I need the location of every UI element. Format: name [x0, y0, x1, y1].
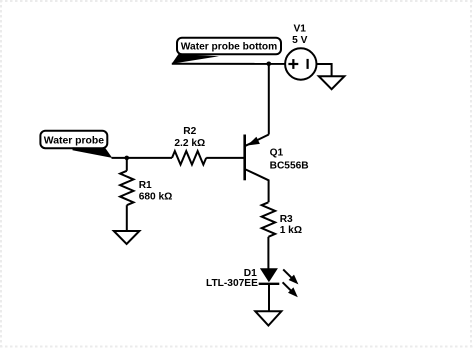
ground symbol (R1 return)	[114, 231, 140, 244]
svg-text:LTL-307EE: LTL-307EE	[206, 278, 258, 289]
wire: V1 negative terminal to ground	[317, 64, 332, 76]
voltage source V1	[285, 48, 316, 79]
svg-text:R2: R2	[183, 126, 196, 137]
transistor Q1 PNP BC556B	[245, 135, 269, 203]
svg-text:680 kΩ: 680 kΩ	[139, 192, 173, 203]
svg-text:Water probe: Water probe	[44, 136, 104, 147]
R3 value label "R3 / 1 kΩ"	[280, 214, 302, 236]
node "Water probe" (callout annotation)	[40, 131, 112, 158]
svg-text:R1: R1	[139, 180, 152, 191]
wire: R2 to Q1 base	[206, 157, 245, 159]
svg-text:V1: V1	[293, 24, 306, 35]
R1 value label "R1 / 680 kΩ"	[139, 180, 173, 203]
wire: R1 to ground	[126, 205, 128, 231]
R2 value label "R2 / 2.2 kΩ"	[174, 126, 205, 149]
wire: junction down to Q1 emitter	[268, 64, 270, 135]
resistor R1	[120, 171, 133, 205]
svg-text:Water probe bottom: Water probe bottom	[181, 42, 277, 53]
svg-text:R3: R3	[280, 214, 293, 225]
svg-text:BC556B: BC556B	[270, 160, 309, 171]
wire: probe node to R1/R2 junction and R2 left lead	[112, 157, 173, 159]
LED D1	[259, 268, 299, 297]
svg-text:1 kΩ: 1 kΩ	[280, 225, 302, 236]
ground symbol (V1 return)	[319, 76, 345, 89]
ground symbol (D1 return)	[255, 311, 281, 325]
resistor R2	[172, 151, 206, 165]
V1 value label "V1 / 5 V"	[292, 24, 307, 47]
resistor R3	[262, 202, 276, 237]
svg-text:5 V: 5 V	[292, 35, 307, 46]
svg-text:2.2 kΩ: 2.2 kΩ	[174, 138, 205, 149]
wire: junction down to R1	[126, 158, 128, 171]
wire: probe-bottom node to V1 positive terminal	[172, 63, 286, 65]
Q1 label "Q1 / BC556B"	[270, 148, 309, 172]
node "Water probe bottom" (callout annotation)	[172, 38, 281, 64]
wire: R3 to D1 anode	[267, 237, 269, 269]
junction: V1 / Q1 emitter node	[267, 62, 272, 67]
D1 value label "D1 / LTL-307EE"	[206, 268, 258, 289]
svg-text:Q1: Q1	[270, 148, 284, 159]
junction: R1 / R2 / probe node	[125, 156, 130, 161]
wire: D1 cathode to ground	[268, 284, 270, 312]
